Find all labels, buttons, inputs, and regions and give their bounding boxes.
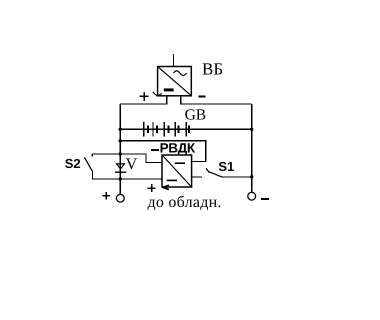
node S1 out: [250, 175, 253, 178]
diode VD V: [115, 164, 126, 172]
node battery right: [250, 128, 253, 131]
node battery left: [119, 128, 122, 131]
wire node to РВДК right top: [120, 141, 206, 162]
wire ВБ + lead: [120, 96, 167, 104]
battery GB cells: [144, 122, 189, 137]
terminal right −: [248, 192, 256, 200]
battery GB wire: [120, 128, 252, 130]
label + (ВБ plus lead): [140, 92, 149, 101]
switch S1: [192, 168, 252, 177]
rectifier U1 ВБ box: [153, 67, 192, 97]
converter U2 РВДК box: [162, 155, 192, 190]
svg-text:до обладн.: до обладн.: [148, 194, 222, 211]
node РВДК feedback: [119, 139, 122, 142]
node S2 top: [119, 152, 122, 155]
svg-text:S1: S1: [218, 159, 234, 174]
wire right bus (−): [251, 104, 253, 192]
terminal left +: [116, 194, 124, 202]
label + (РВДК lower input): [148, 184, 156, 192]
svg-text:РВДК: РВДК: [160, 140, 196, 155]
label − (right terminal): [261, 198, 269, 200]
wire step to РВДК left top: [120, 154, 162, 162]
label − (РВДК upper input): [151, 149, 159, 151]
switch S2: [84, 154, 120, 179]
label − (ВБ minus lead): [199, 96, 206, 98]
svg-text:S2: S2: [65, 156, 81, 171]
junction dots: [119, 128, 254, 181]
wire ВБ − lead: [181, 96, 252, 104]
wire left bus (+): [119, 104, 121, 194]
svg-text:ВБ: ВБ: [202, 60, 223, 79]
node bottom rail: [119, 177, 122, 180]
svg-text:GB: GB: [185, 106, 207, 123]
wire AC input stub: [173, 54, 175, 67]
svg-text:V: V: [126, 156, 138, 173]
wire bottom rail to РВДК left bottom: [92, 178, 162, 180]
label + (left terminal): [102, 192, 110, 199]
